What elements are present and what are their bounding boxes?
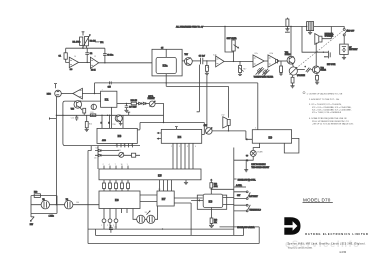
svg-text:PRESET: PRESET [148, 98, 156, 100]
wire crystals loop [133, 206, 158, 219]
resistor R13 [90, 114, 96, 117]
resistor R16 [131, 102, 136, 105]
svg-text:13: 13 [158, 189, 160, 191]
wire RV3 to IC9 [212, 131, 246, 139]
svg-text:R17: R17 [243, 68, 246, 70]
svg-text:SET A: SET A [148, 95, 154, 98]
op-amp A3 (IC1a) [73, 88, 83, 99]
svg-text:IC9 = TL062, IC10 = LM380N-8: IC9 = TL062, IC10 = LM380N-8 [312, 112, 342, 114]
svg-text:7: 7 [102, 89, 103, 91]
opamp A6 input ticks [269, 58, 271, 64]
wire LED down [234, 156, 253, 160]
opamp A2 input ticks [91, 60, 93, 65]
svg-text:SPEAKER: SPEAKER [325, 35, 334, 38]
wire osc loop top [31, 196, 57, 214]
node bus junction SET LEVEL [224, 26, 225, 27]
wire TR1 collector [290, 27, 292, 57]
pin arrow IC9 left [246, 139, 252, 141]
transistor TR2 [313, 66, 320, 73]
node y229 junction [162, 228, 163, 229]
ground C12 [124, 110, 128, 112]
diag element box CV1 [257, 68, 261, 72]
svg-text:R13: R13 [90, 112, 93, 114]
pin IC4 top [175, 127, 178, 130]
test point TP3 [108, 219, 112, 223]
opamp A3 input ticks [80, 91, 82, 97]
pins IC4 bottom to IC5 [173, 143, 193, 169]
svg-text:Telephone (0532) 552461: Telephone (0532) 552461 [288, 248, 314, 250]
trimmer circle small [119, 152, 124, 157]
svg-text:C40: C40 [76, 202, 79, 204]
IC decoder IC6 [99, 191, 140, 209]
svg-text:SET: SET [237, 195, 240, 197]
wire IC2a bottom to bus [165, 76, 167, 87]
switch S3 [246, 191, 248, 193]
svg-text:+VE OF 1k TO 3.3k RESISTOR VAL: +VE OF 1k TO 3.3k RESISTOR VALUE 10% [312, 122, 353, 125]
svg-text:MODEL D70: MODEL D70 [303, 197, 331, 202]
svg-text:1: 1 [171, 146, 172, 148]
resistor R34 below TR2 [316, 73, 318, 75]
wire supply stub to R1/R2 [82, 32, 85, 36]
wire test points to bus [104, 223, 116, 229]
svg-text:2: 2 [103, 164, 104, 166]
svg-text:C5: C5 [161, 47, 163, 49]
terminal node R40 [211, 189, 212, 190]
wire wiper to C22 [297, 69, 304, 71]
svg-text:R16 1M: R16 1M [131, 100, 138, 102]
pin top IC2a [165, 49, 167, 57]
svg-text:DATONG ELECTRONICS LIMITED: DATONG ELECTRONICS LIMITED [305, 232, 369, 236]
crystal XT3 [137, 215, 145, 223]
svg-text:C2: C2 [90, 53, 92, 55]
transistor TR5 [74, 101, 82, 109]
potentiometer SET LEVEL [232, 40, 235, 51]
switch S1 on-off [343, 29, 345, 31]
wire IC7 to IC8 [174, 198, 202, 203]
pin arrow IC8 left [191, 200, 203, 202]
svg-text:TP1: TP1 [100, 42, 103, 44]
svg-text:BATTERY: BATTERY [249, 195, 258, 198]
IC divider IC4 [161, 129, 201, 143]
star mark a [246, 155, 249, 157]
node y115 dots [92, 115, 93, 116]
svg-text:IC2c: IC2c [255, 53, 259, 55]
svg-text:TR6: TR6 [112, 124, 115, 126]
resistor R25 [280, 61, 282, 66]
pin IC3 top extra [122, 115, 124, 128]
svg-text:4u7 TANT: 4u7 TANT [129, 106, 137, 109]
wire A6 out to TR1 [279, 60, 287, 62]
wire bus to S1 [341, 27, 345, 29]
wire jack stubs [323, 52, 328, 57]
wire ctrl stub [234, 178, 237, 180]
wire top bus [201, 26, 341, 28]
svg-text:ON AIR: ON AIR [257, 150, 264, 153]
svg-text:4: 4 [195, 146, 196, 148]
resistor R1 [80, 37, 83, 45]
diode D2 [141, 102, 146, 104]
capacitor C12 [125, 104, 128, 110]
pin bottom IC2a [165, 74, 167, 76]
test point TP2 [102, 219, 106, 223]
svg-text:2: 2 [107, 225, 108, 227]
wire right column x233.8 [233, 148, 235, 236]
svg-text:SET LEVEL: SET LEVEL [227, 38, 237, 40]
wire osc main [31, 204, 99, 206]
long wire y115 [56, 114, 163, 116]
wire IC3 top right [137, 123, 140, 130]
node A2 out junction [104, 62, 105, 63]
ground RV2 [238, 73, 242, 76]
oscillator input arrow [30, 213, 34, 221]
node bus-R1 junction [82, 48, 83, 49]
pins IC6 bottom [104, 209, 127, 219]
transistor TR1 [287, 56, 295, 64]
node x163 join [163, 122, 164, 123]
svg-text:R36: R36 [118, 150, 121, 152]
svg-text:ALL UNMARKED PINS TO +V: ALL UNMARKED PINS TO +V [176, 25, 204, 28]
resistor R33 top branch [34, 194, 40, 198]
opamp A4 input ticks [216, 59, 218, 64]
svg-text:X1: X1 [42, 199, 44, 201]
wire to preset [146, 103, 150, 105]
variable capacitor CV1 [256, 67, 264, 74]
svg-text:C31: C31 [114, 227, 117, 229]
wire loop around IC2a [152, 49, 182, 76]
wire drop x207 [206, 76, 208, 128]
svg-text:7: 7 [115, 164, 116, 166]
svg-text:10: 10 [121, 164, 123, 166]
capacitor C11 electrolytic [91, 104, 96, 109]
wire left branch down [65, 48, 67, 53]
wire IC9 bottom to LED [253, 143, 259, 150]
wire bus down to pot [225, 27, 234, 53]
wire feedback up [94, 83, 96, 94]
earphone EP1 [228, 86, 230, 117]
capacitor C3 [103, 48, 107, 63]
ground TR6 [119, 122, 122, 126]
resistor R14 [86, 115, 88, 121]
wire y235.4 [96, 234, 244, 236]
resistor R40 [210, 183, 213, 188]
resistor R28 on bus [286, 19, 289, 26]
wire x98 drop [97, 146, 99, 170]
svg-text:C3 10n: C3 10n [107, 55, 113, 57]
ground R20 [205, 71, 209, 75]
node col junction [62, 115, 63, 116]
ground volume [290, 83, 294, 88]
wire x95.5 link [95, 229, 97, 235]
wire osc loop bottom [31, 212, 57, 214]
svg-text:2: 2 [179, 146, 180, 148]
wire enclosure bottom [88, 243, 259, 245]
mic terminal mark [54, 84, 57, 89]
svg-text:C15: C15 [108, 86, 111, 88]
svg-text:IC2b: IC2b [213, 54, 217, 56]
title underline [303, 202, 333, 204]
svg-text:D3: D3 [96, 147, 98, 149]
svg-text:LINK TO DISABLE: LINK TO DISABLE [251, 163, 266, 166]
svg-text:1 MHz: 1 MHz [49, 216, 54, 218]
svg-text:MIC: MIC [47, 94, 51, 96]
wire stub left [49, 117, 56, 119]
svg-text:13 14: 13 14 [91, 69, 96, 71]
supply arrow R40 [210, 179, 212, 183]
svg-text:3: 3 [187, 146, 188, 148]
pins IC3 top [102, 107, 111, 128]
wire jack column down [55, 97, 57, 205]
svg-text:C: C [108, 122, 110, 124]
svg-text:BC184: BC184 [320, 70, 326, 72]
wire x243.6 link [243, 227, 245, 236]
svg-text:TR7: TR7 [184, 54, 188, 56]
op-amp A6 filter [268, 55, 279, 67]
svg-text:X3: X3 [145, 212, 147, 214]
wire R1/R2 join to bus [83, 45, 87, 48]
svg-text:TONE/SPEECH FILTER: TONE/SPEECH FILTER [254, 77, 274, 79]
wire IC8 right pins [223, 198, 234, 205]
svg-text:4: 4 [109, 164, 110, 166]
svg-text:4069: 4069 [102, 140, 106, 142]
wire drop x199 [197, 65, 200, 112]
IC LSI IC5 [99, 169, 201, 180]
svg-text:3: 3 [113, 225, 114, 227]
wire long bus y82.9 [95, 82, 258, 84]
wire A2 output to IC2a [99, 62, 152, 64]
potentiometer VOLUME [289, 67, 297, 75]
diode D1 [136, 102, 141, 104]
variable resistor R2 [85, 36, 89, 45]
svg-text:A CTRL: A CTRL [236, 184, 242, 187]
pins IC5 top ticks [104, 166, 128, 169]
IC divider IC3 [97, 128, 137, 143]
ground below bus [285, 27, 290, 33]
wire y226.9 [220, 226, 260, 228]
svg-text:5: 5 [255, 128, 256, 130]
wire to A4 [207, 60, 216, 62]
trimmer RV3 [206, 128, 213, 135]
switch S4 [246, 204, 248, 206]
node xtal join [56, 204, 57, 205]
resistor network below IC5 [104, 180, 128, 183]
wire pot to filter line [233, 51, 235, 61]
svg-text:7: 7 [116, 145, 117, 147]
svg-text:SET OFF: SET OFF [347, 30, 355, 32]
node pot join [233, 61, 234, 62]
resistor R31 below volume [292, 75, 294, 77]
svg-text:1: 1 [101, 225, 102, 227]
opamp A5 input ticks [254, 58, 256, 64]
svg-text:HIGH/LOW (A) CTRL: HIGH/LOW (A) CTRL [238, 178, 256, 181]
svg-text:Spence Mills, Mill Lane, Braml: Spence Mills, Mill Lane, Bramley, Leeds … [288, 243, 366, 246]
wire loop around IC8 [197, 195, 226, 209]
svg-text:TR5: TR5 [71, 109, 74, 111]
svg-text:R2 1M: R2 1M [90, 41, 96, 43]
wire bus drop x302 [302, 27, 323, 53]
svg-text:D4: D4 [94, 158, 96, 160]
arrow mark crystals [147, 211, 151, 215]
node speaker jack a [323, 52, 324, 53]
resistor R20 [206, 61, 208, 66]
svg-text:VOLUME: VOLUME [297, 75, 306, 77]
wire A3 to IC1 [82, 93, 100, 95]
node TR1 bus [290, 26, 291, 27]
node bus crossing [166, 82, 167, 83]
wire speaker right [322, 27, 331, 39]
node C2 junction [87, 62, 88, 63]
svg-text:R33: R33 [34, 192, 37, 194]
wire IC4 right pin [202, 134, 205, 136]
ground R41 [209, 224, 214, 228]
star mark b [246, 159, 249, 161]
capacitor C10 [75, 115, 78, 121]
capacitor C7 [201, 58, 207, 64]
IC op-amp IC1 box [101, 91, 117, 107]
wire IC2a to TR7 [182, 60, 184, 62]
wire A4 out to filters [224, 60, 253, 62]
svg-text:BATTERY: BATTERY [349, 48, 358, 51]
capacitor C20 [276, 59, 278, 63]
node y122 drop [203, 123, 205, 135]
svg-text:12: 12 [94, 56, 96, 58]
diode D4 [95, 154, 119, 157]
component small box [132, 153, 136, 157]
svg-text:EXT SPKR: EXT SPKR [327, 64, 336, 66]
IC CMOS IC9 [252, 130, 291, 144]
pins IC7 top [160, 180, 172, 191]
crystal XT1 [41, 201, 49, 209]
capacitor C2 [85, 48, 89, 62]
svg-text:9: 9 [124, 145, 125, 147]
op-amp A5 filter [253, 55, 264, 67]
op-amp A2 (IC2d) [90, 57, 98, 68]
wire A5 to A6 [264, 60, 268, 62]
svg-text:1: 1 [127, 164, 128, 166]
svg-text:LS2: LS2 [221, 115, 224, 117]
wire test stub [95, 41, 99, 43]
supply tick y115 [127, 112, 130, 115]
op-amp IC2a box [156, 57, 176, 73]
wire TR5 loop [63, 101, 140, 146]
capacitor C30 on wire [109, 225, 113, 233]
test point TP4 [114, 219, 118, 223]
wire x91 drop [88, 146, 91, 151]
ground T1 [308, 31, 312, 35]
resistor R12 [83, 108, 86, 113]
wire y189.3 [211, 188, 234, 190]
svg-text:X2: X2 [66, 199, 68, 201]
loudspeaker LS1 [319, 36, 322, 42]
jack SK2 ext speaker [328, 51, 330, 59]
op-amp A4 (IC2b) [216, 56, 224, 67]
wire IC1 out [117, 103, 131, 105]
svg-text:THIS GUARD CIRCUIT: THIS GUARD CIRCUIT [251, 166, 269, 169]
svg-text:R14: R14 [89, 123, 92, 125]
pins IC3 bottom [117, 143, 132, 147]
svg-text:MW: MW [30, 224, 33, 226]
wire IC6 to IC7 [140, 195, 157, 202]
trimmer PRESET SET A [149, 101, 155, 107]
svg-text:10: 10 [74, 56, 76, 58]
node T1 bus [306, 26, 307, 27]
wire bus y86.4 [166, 85, 228, 87]
resistor R41 [210, 218, 213, 224]
transformer T1 [307, 22, 314, 31]
wire enclosure left [87, 151, 89, 244]
battery BT1 [340, 44, 349, 54]
wire IC9 right feedback loop [284, 138, 299, 153]
wire preset right and down [155, 104, 163, 123]
wire enclosure right [258, 227, 260, 244]
svg-text:C10: C10 [71, 118, 74, 120]
wire C22 to TR2 base [311, 69, 313, 71]
crystal XT4 [147, 215, 155, 223]
wire TR1 emitter to volume [292, 64, 295, 67]
ground battery [342, 54, 346, 59]
logo Datong D [284, 217, 300, 235]
svg-text:R5: R5 [207, 67, 209, 69]
variable capacitor CV2 [262, 69, 269, 76]
node C7 out [206, 60, 207, 61]
capacitor C22 electrolytic [306, 68, 311, 73]
note bullet [303, 92, 305, 94]
transistor TR6 [115, 115, 122, 122]
wire jack to A3 [61, 93, 73, 95]
wire IC8 bottom pin [211, 208, 213, 219]
ground TR2 [315, 80, 319, 84]
mechanical link dashed [296, 31, 342, 68]
svg-text:IC2a: IC2a [163, 65, 169, 67]
opamp A1 input ticks [70, 60, 72, 65]
crystal XT2 [65, 201, 73, 209]
svg-text:9: 9 [101, 122, 102, 124]
wire S1 to battery [343, 36, 345, 44]
resistor R3 [64, 53, 67, 59]
wire x191 down [190, 203, 192, 235]
svg-text:11: 11 [131, 145, 133, 147]
node jack column crossing [56, 115, 57, 116]
svg-text:C1: C1 [59, 55, 61, 57]
ground R14 [85, 128, 89, 132]
node feedback [94, 93, 95, 94]
wire IC8 top pin [210, 189, 212, 194]
LED ON AIR [250, 150, 256, 156]
diode D3 [95, 149, 119, 152]
node speaker jack b [324, 56, 325, 57]
svg-text:BC184: BC184 [285, 54, 291, 56]
diag element box CV2 [263, 70, 267, 74]
ground link [244, 161, 248, 171]
op-amp A1 (IC2c) [69, 57, 78, 67]
microphone jack J1 [55, 90, 62, 97]
svg-text:100k: 100k [214, 186, 218, 188]
capacitor C15 tick [110, 81, 112, 84]
svg-text:4-3-50: 4-3-50 [339, 251, 347, 254]
wire TR5 emitter [80, 108, 84, 116]
svg-text:R1 470k: R1 470k [73, 42, 80, 44]
svg-text:C7 4u7: C7 4u7 [199, 55, 205, 57]
wire tp y187 [234, 186, 246, 188]
svg-text:HIGH/LOW GAMMA: HIGH/LOW GAMMA [237, 226, 255, 229]
svg-text:8 9: 8 9 [70, 69, 73, 71]
svg-text:10k: 10k [214, 222, 217, 224]
pin arrows IC4 left [157, 132, 161, 139]
svg-text:1. OUTER OF JACKS WIRED TO +VE: 1. OUTER OF JACKS WIRED TO +VE [307, 92, 343, 95]
trimmer RV2 [239, 61, 241, 65]
wire A1 out to A2 in [79, 61, 91, 63]
wire y122 bus [140, 122, 204, 124]
svg-text:IC2d: IC2d [270, 53, 274, 55]
